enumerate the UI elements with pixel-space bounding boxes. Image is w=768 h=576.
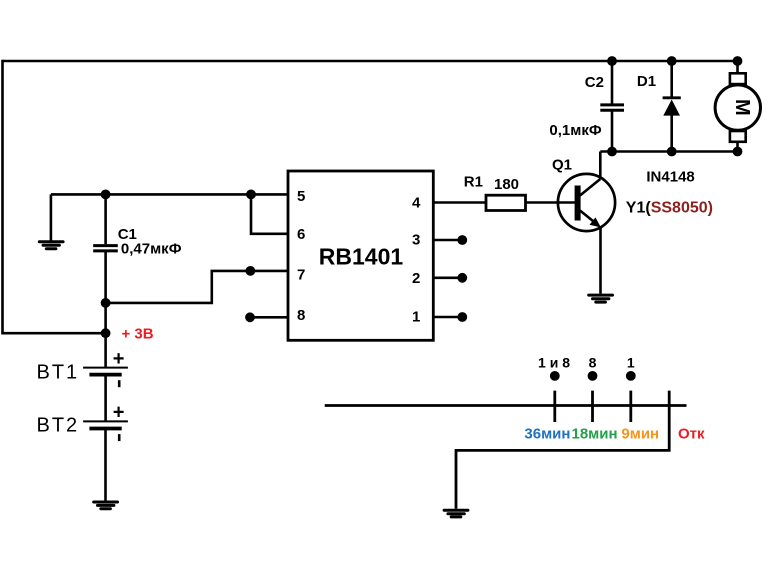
svg-text:IN4148: IN4148 [646, 169, 694, 186]
pin1 stub wire [433, 316, 458, 319]
capacitor C1 [93, 246, 118, 251]
pin1 dot [457, 312, 467, 322]
svg-text:Отк: Отк [678, 426, 705, 443]
wire second rail [600, 150, 737, 153]
wire ground stub left [50, 194, 53, 240]
svg-text:1: 1 [412, 308, 420, 325]
node top C2 [607, 56, 617, 66]
svg-text:Y1(SS8050): Y1(SS8050) [626, 199, 713, 216]
svg-text:7: 7 [297, 266, 305, 283]
node top D1 [667, 56, 677, 66]
svg-text:6: 6 [297, 226, 305, 243]
node +3V [101, 328, 111, 338]
selector tick 18min [591, 391, 594, 422]
node pin7 dot [246, 266, 256, 276]
node B (pin5/pin6 split) [246, 190, 256, 200]
svg-text:8: 8 [589, 354, 597, 370]
wire collector up [599, 152, 602, 180]
svg-text:180: 180 [494, 176, 519, 193]
svg-text:+ 3В: + 3В [122, 326, 154, 343]
selector tick 9min [629, 391, 632, 422]
wire between batteries [104, 376, 107, 421]
svg-text:0,1мкФ: 0,1мкФ [549, 122, 601, 139]
label 36мин [524, 426, 570, 443]
svg-text:Q1: Q1 [552, 157, 572, 174]
svg-text:+: + [113, 348, 125, 370]
svg-text:8: 8 [297, 307, 305, 324]
wire C1 bottom lead down through nodes to battery [104, 252, 107, 367]
svg-text:BT1: BT1 [37, 361, 80, 383]
svg-text:D1: D1 [637, 73, 656, 90]
svg-text:2: 2 [412, 270, 420, 287]
label Y1(SS8050) [626, 199, 713, 216]
wire C1 top lead [104, 194, 107, 244]
label 1 [627, 354, 635, 370]
node top motor [733, 56, 743, 66]
pin 6 label [297, 226, 305, 243]
wire off-position to ground [456, 391, 669, 509]
label 18мин [572, 426, 618, 443]
label 9мин [621, 426, 659, 443]
wire BT2 to ground [104, 430, 107, 501]
motor M1 [715, 73, 760, 142]
label Отк [678, 426, 705, 443]
wire motor bottom lead [736, 141, 739, 152]
op IC U1 RB1401 box [288, 171, 433, 340]
pin 3 label [412, 232, 420, 249]
selector dot 1и8 [550, 371, 560, 381]
label Q1 [552, 157, 572, 174]
wire pin4 to R1 [433, 201, 486, 204]
transistor Q1 [558, 174, 615, 231]
ground battery [94, 502, 118, 509]
label BT1 [37, 361, 80, 383]
svg-text:+: + [113, 402, 125, 424]
label C2 value [549, 122, 601, 139]
diode D1 [663, 98, 681, 116]
wire pin7 bend [106, 271, 288, 303]
svg-text:0,47мкФ: 0,47мкФ [121, 240, 182, 257]
label C1 value [121, 240, 182, 257]
node bottom D1 [667, 147, 677, 157]
selector dot 8 [588, 371, 598, 381]
ground left [39, 242, 63, 249]
pin2 dot [457, 273, 467, 283]
label 1 и 8 [538, 354, 570, 370]
pin 1 label [412, 308, 420, 325]
label RB1401 [319, 243, 404, 269]
wire C2 top lead [611, 61, 614, 104]
node bottom motor [733, 147, 743, 157]
svg-text:9мин: 9мин [621, 426, 659, 443]
svg-text:M: M [731, 99, 753, 116]
wire left side down to +3V node [3, 60, 106, 334]
wire top rail [3, 60, 738, 63]
ground transistor [589, 295, 613, 302]
svg-text:3: 3 [412, 232, 420, 249]
pin 8 label [297, 307, 305, 324]
pin 2 label [412, 270, 420, 287]
svg-text:18мин: 18мин [572, 426, 618, 443]
ground selector [444, 510, 468, 517]
svg-text:5: 5 [297, 188, 305, 205]
wire emitter down [599, 228, 602, 294]
svg-text:BT2: BT2 [37, 414, 80, 436]
node C1 bottom [101, 298, 111, 308]
selector rail wire [325, 404, 687, 407]
svg-text:R1: R1 [464, 174, 483, 191]
wire pin5 rail [51, 193, 288, 196]
label C2 [585, 74, 604, 91]
svg-text:36мин: 36мин [524, 426, 570, 443]
selector dot 1 [626, 371, 636, 381]
resistor R1 [486, 195, 526, 210]
wire D1 bottom lead [670, 114, 673, 152]
node pin8 dot [245, 312, 255, 322]
battery BT2 [83, 402, 128, 441]
label 8 [589, 354, 597, 370]
svg-text:4: 4 [412, 195, 421, 212]
pin3 dot [457, 235, 467, 245]
label D1 [637, 73, 656, 90]
svg-text:1 и 8: 1 и 8 [538, 354, 570, 370]
wire D1 top lead [670, 61, 673, 98]
selector tick 36min [553, 391, 556, 422]
label R1 [464, 174, 483, 191]
node bottom C2 [607, 147, 617, 157]
pin 7 label [297, 266, 305, 283]
svg-text:RB1401: RB1401 [319, 243, 404, 269]
wire C2 bottom lead [611, 111, 614, 152]
capacitor C2 [600, 105, 624, 110]
battery BT1 [83, 348, 128, 387]
pin3 stub wire [433, 239, 458, 242]
pin2 stub wire [433, 276, 458, 279]
wire motor top lead [736, 61, 739, 74]
node A (C1 top / pin5) [101, 190, 111, 200]
wire pin6 branch [251, 194, 288, 233]
pin 5 label [297, 188, 305, 205]
label +3V [122, 326, 154, 343]
label 180 [494, 176, 519, 193]
svg-text:C2: C2 [585, 74, 604, 91]
label BT2 [37, 414, 80, 436]
pin 4 label [412, 195, 421, 212]
wire R1 to base [526, 201, 577, 204]
svg-text:1: 1 [627, 354, 635, 370]
label C1 [118, 226, 137, 243]
wire pin8 stub [250, 316, 288, 319]
label IN4148 [646, 169, 694, 186]
